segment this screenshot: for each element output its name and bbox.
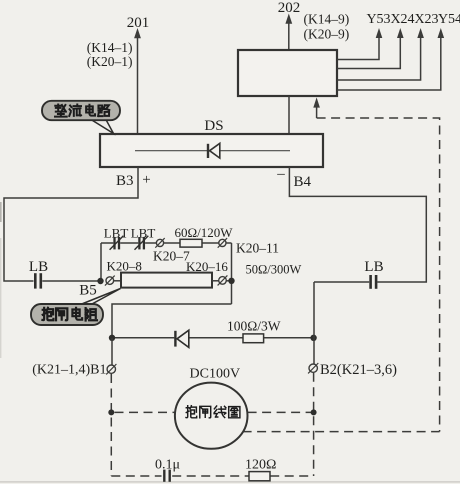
svg-text:B2(K21–3,6): B2(K21–3,6) [320, 362, 397, 378]
svg-text:LBT: LBT [104, 226, 129, 241]
svg-text:K20–11: K20–11 [236, 241, 279, 256]
svg-text:DC100V: DC100V [190, 367, 241, 382]
svg-text:100Ω/3W: 100Ω/3W [227, 319, 281, 334]
svg-text:B4: B4 [294, 174, 312, 190]
svg-text:0.1μ: 0.1μ [155, 458, 180, 473]
svg-text:LB: LB [29, 259, 48, 275]
svg-text:(K20–9): (K20–9) [304, 27, 350, 42]
svg-text:Y54: Y54 [438, 12, 460, 27]
svg-text:B5: B5 [79, 283, 97, 299]
svg-text:60Ω/120W: 60Ω/120W [174, 225, 233, 240]
svg-text:DS: DS [204, 118, 223, 134]
svg-text:120Ω: 120Ω [245, 458, 276, 473]
svg-text:K20–7: K20–7 [153, 249, 190, 264]
svg-text:X24: X24 [390, 12, 414, 27]
svg-text:X23: X23 [414, 12, 438, 27]
svg-text:B3: B3 [116, 173, 134, 189]
svg-text:–: – [276, 166, 285, 182]
svg-text:LB: LB [364, 259, 383, 275]
svg-text:(K14–9): (K14–9) [304, 12, 350, 27]
svg-text:(K20–1): (K20–1) [87, 54, 133, 69]
svg-text:+: + [142, 172, 150, 188]
svg-text:202: 202 [278, 0, 301, 16]
svg-text:(K21–1,4)B1: (K21–1,4)B1 [32, 363, 106, 378]
svg-text:201: 201 [127, 15, 150, 31]
svg-text:50Ω/300W: 50Ω/300W [246, 263, 302, 277]
svg-text:(K14–1): (K14–1) [87, 40, 133, 55]
svg-text:K20–8: K20–8 [107, 259, 142, 274]
svg-text:Y53: Y53 [366, 12, 390, 27]
